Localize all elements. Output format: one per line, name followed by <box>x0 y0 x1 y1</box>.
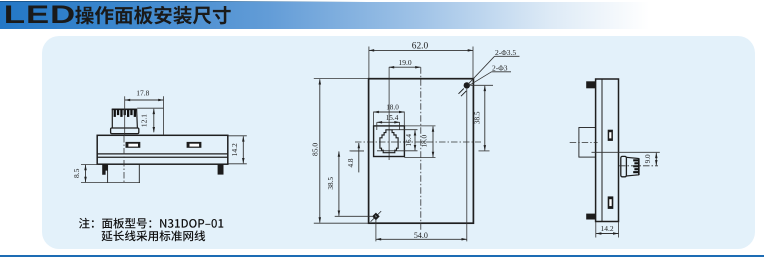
slot 2 <box>187 142 202 148</box>
svg-text:8.5: 8.5 <box>72 168 81 178</box>
svg-text:62.0: 62.0 <box>412 41 429 51</box>
svg-text:19.0: 19.0 <box>398 58 411 67</box>
leader 2-Phi3 <box>469 63 512 85</box>
dim 14.2 (right view) <box>596 222 619 238</box>
mounting hole top-right (2-Phi3.5) <box>459 82 470 96</box>
right mounting foot <box>218 164 224 174</box>
dim 17.8 <box>125 88 164 135</box>
connector teeth <box>633 159 638 161</box>
RJ45 horizontal centerline <box>355 141 481 143</box>
bottom tab <box>586 214 595 220</box>
left drawing: side view of panel <box>72 88 247 184</box>
title text CJK 操作面板安装尺寸 <box>75 6 230 25</box>
svg-text:15.4: 15.4 <box>386 114 399 122</box>
svg-text:4.8: 4.8 <box>347 158 355 167</box>
inner face line <box>601 79 603 222</box>
dim 14.2 (left view) <box>229 136 247 164</box>
svg-text:16.4: 16.4 <box>405 134 413 147</box>
dim 18.0 (width) <box>374 104 405 126</box>
dim 38.5 (upper-right) <box>470 85 493 150</box>
RJ45 vertical centerline <box>388 67 390 160</box>
right drawing: side view vertical <box>570 79 660 238</box>
upper slot <box>608 130 613 141</box>
svg-text:85.0: 85.0 <box>311 143 320 156</box>
svg-text:2-Φ3.5: 2-Φ3.5 <box>495 48 516 57</box>
dim 9.0 <box>592 152 660 165</box>
RJ45 connector side view (right) <box>619 156 658 176</box>
dim 16.4 <box>377 130 418 151</box>
left mounting foot <box>102 164 107 175</box>
note text line 2 <box>102 230 206 241</box>
body internal line 2 <box>97 156 228 158</box>
top tab <box>586 81 595 88</box>
panel side outline <box>596 79 619 222</box>
dim 18.0 (height) <box>404 126 435 158</box>
dim 62.0 <box>369 41 473 78</box>
svg-text:38.5: 38.5 <box>327 177 335 190</box>
lower clip outline <box>108 164 140 182</box>
note text line 1 <box>79 218 223 229</box>
RJ45 connector side view (top) <box>111 109 139 133</box>
dim 8.5 <box>72 164 140 182</box>
svg-text:12.1: 12.1 <box>139 114 148 127</box>
RJ45 cutout shape <box>380 130 398 153</box>
panel horizontal centerline segments <box>350 150 365 152</box>
dim 54.0 <box>376 89 467 242</box>
left protruding box <box>570 128 598 158</box>
svg-text:54.0: 54.0 <box>414 231 428 240</box>
middle drawing: front view <box>311 41 520 241</box>
mounting hole bottom-left <box>371 211 382 222</box>
lower slot <box>608 196 614 209</box>
slot 1 <box>126 142 141 148</box>
dim 15.4 <box>377 114 400 130</box>
svg-text:18.0: 18.0 <box>421 135 429 148</box>
svg-text:14.2: 14.2 <box>600 224 613 233</box>
dim 38.5 (lower-left) <box>327 151 372 216</box>
panel body outline <box>97 135 228 164</box>
centerline (connector axis) <box>124 96 126 136</box>
panel front outline <box>369 79 474 224</box>
RJ45 cutout square <box>374 126 405 157</box>
svg-text:18.0: 18.0 <box>386 104 399 112</box>
title text LED <box>6 6 74 24</box>
dim 12.1 <box>137 108 163 132</box>
dim 19.0 <box>389 58 421 67</box>
svg-text:14.2: 14.2 <box>230 143 239 156</box>
body internal line 1 <box>97 153 228 155</box>
connector teeth <box>114 109 116 117</box>
svg-text:2-Φ3: 2-Φ3 <box>492 63 508 72</box>
dim 85.0 <box>311 79 369 224</box>
svg-text:9.0: 9.0 <box>644 154 652 163</box>
svg-text:17.8: 17.8 <box>136 88 149 97</box>
dim 4.8 <box>347 143 364 172</box>
leader 2-Phi3.5 <box>468 48 520 84</box>
svg-text:38.5: 38.5 <box>473 111 481 124</box>
panel vertical centerline <box>420 67 422 231</box>
